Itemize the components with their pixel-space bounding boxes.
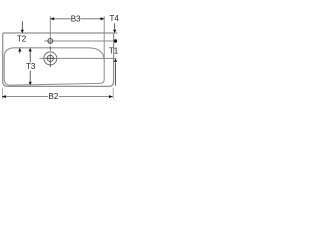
svg-text:T2: T2 <box>17 35 27 44</box>
dimension B3 line <box>50 18 104 20</box>
B2 right arrowhead <box>109 95 113 98</box>
drain centerline E-W <box>40 57 117 59</box>
drain crosshair south tick <box>49 63 51 67</box>
bowl outline <box>4 48 104 85</box>
svg-text:B2: B2 <box>49 92 59 101</box>
T2 up arrow <box>18 48 21 52</box>
svg-text:T3: T3 <box>26 62 36 71</box>
drain inner crosshair horizontal <box>46 57 55 59</box>
B3 extension line / tap hole vertical <box>49 16 51 44</box>
drain inner circle <box>47 55 53 61</box>
svg-text:B3: B3 <box>71 15 81 24</box>
T4 dot marker <box>114 39 117 42</box>
T3 up arrow <box>29 48 32 52</box>
B3 right arrowhead <box>101 17 105 20</box>
dimension B2 line <box>2 96 113 98</box>
B3 left arrowhead <box>50 17 54 20</box>
T1 up arrow <box>114 59 117 62</box>
outer basin outline <box>3 33 114 86</box>
T3 dimension line lower <box>29 71 31 82</box>
top edge extension line (right) <box>114 32 118 34</box>
tap hole line y=41 <box>44 40 114 42</box>
T3 dimension line upper <box>29 52 31 62</box>
B2 left arrowhead <box>2 95 6 98</box>
T2 down arrow <box>21 21 23 29</box>
B2 right extension line <box>112 88 114 99</box>
drain inner crosshair vertical <box>49 54 51 63</box>
drain crosshair north tick <box>49 46 51 50</box>
tap hole circle <box>48 39 53 44</box>
bowl right edge / B3 right extension line <box>103 16 105 61</box>
T4 down arrow <box>114 23 116 29</box>
B2 left extension line <box>1 88 3 99</box>
svg-text:T4: T4 <box>110 14 120 23</box>
svg-text:T1: T1 <box>109 47 119 56</box>
drain outer circle <box>44 52 57 65</box>
T3 down arrow <box>29 82 32 86</box>
